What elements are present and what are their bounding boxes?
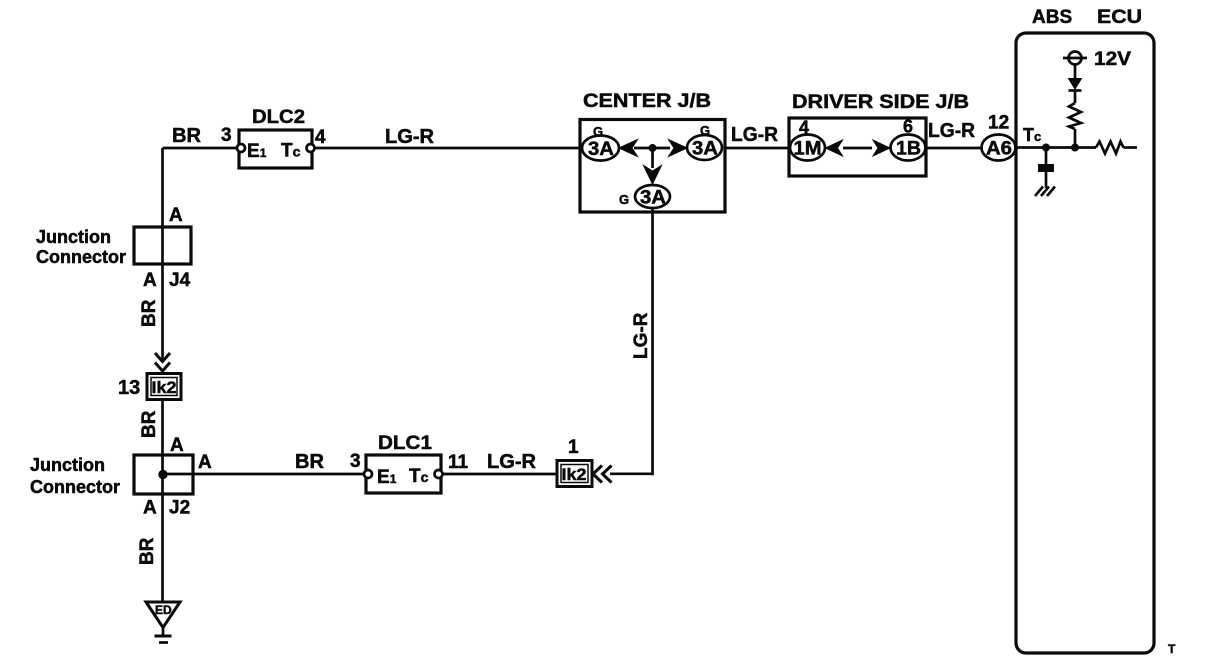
svg-text:J2: J2 — [169, 498, 190, 519]
svg-text:ABS: ABS — [1032, 7, 1072, 28]
svg-text:Ik2: Ik2 — [562, 465, 587, 484]
connector 1M — [790, 135, 825, 161]
diode D1 (down) — [1069, 79, 1082, 90]
svg-text:Connector: Connector — [30, 477, 120, 497]
svg-text:BR: BR — [137, 537, 158, 565]
svg-text:ED: ED — [155, 603, 172, 617]
svg-text:11: 11 — [448, 452, 469, 473]
connector Ik2 (pin 13) — [147, 374, 181, 400]
wire capacitor to ground — [1045, 172, 1048, 189]
svg-text:LG-R: LG-R — [385, 126, 435, 148]
node center junction dot — [649, 145, 656, 152]
svg-text:3: 3 — [350, 451, 361, 472]
svg-text:Ik2: Ik2 — [152, 378, 177, 397]
connector 1B — [891, 135, 926, 161]
wire ECU internal horizontal — [1016, 146, 1096, 149]
svg-text:4: 4 — [315, 127, 326, 148]
svg-text:LG-R: LG-R — [631, 312, 652, 359]
capacitor C1 — [1039, 165, 1054, 172]
ground (chassis) — [1035, 187, 1055, 197]
svg-text:LG-R: LG-R — [928, 120, 976, 142]
connector DLC2 — [239, 130, 312, 168]
arrow left (to 1M) — [826, 140, 843, 156]
junction connector J4 — [134, 227, 191, 264]
connector 3A left — [582, 136, 619, 161]
terminal circle DLC2 pin3 — [237, 144, 245, 152]
wire LG-R vertical up to CENTER J/B — [651, 208, 654, 475]
svg-text:Junction: Junction — [30, 455, 105, 475]
terminal circle DLC1 pin11 — [435, 470, 443, 478]
svg-text:J4: J4 — [169, 270, 191, 291]
svg-text:DLC2: DLC2 — [252, 107, 305, 128]
svg-text:Tc: Tc — [409, 466, 429, 487]
wire LG-R DLC1 to Ik2 — [443, 473, 558, 476]
wire vertical BR left run — [161, 148, 164, 360]
svg-text:A: A — [198, 452, 212, 473]
connector Ik2 (pin 1) — [557, 461, 592, 487]
wire between 1M and 1B — [843, 147, 872, 150]
svg-text:LG-R: LG-R — [731, 124, 779, 146]
arrow left (to 3A) — [619, 140, 638, 157]
wire LG-R CENTER to DRIVER SIDE — [725, 147, 790, 150]
svg-text:DLC1: DLC1 — [378, 433, 432, 454]
svg-text:LG-R: LG-R — [487, 451, 537, 473]
arrow down (to bottom 3A) — [644, 166, 662, 185]
svg-text:A: A — [143, 498, 157, 519]
node Tc junction dot 1 — [1043, 144, 1050, 151]
svg-text:12V: 12V — [1094, 49, 1131, 70]
arrow right (to 3A) — [669, 140, 688, 157]
svg-text:G: G — [593, 124, 603, 139]
wire node to capacitor — [1045, 148, 1048, 165]
arrow chevrons left after Ik2 — [593, 466, 612, 483]
wire LG-R DRIVER SIDE to A6 — [926, 147, 981, 150]
ground ED triangle — [146, 602, 180, 628]
resistor R2 (horizontal zigzag) — [1096, 142, 1124, 154]
wire main top BR segment — [163, 147, 241, 150]
svg-text:Connector: Connector — [36, 247, 126, 267]
svg-text:BR: BR — [139, 410, 160, 438]
wire LG-R DLC2 to CENTER J/B — [315, 147, 584, 150]
svg-text:ECU: ECU — [1097, 7, 1142, 28]
connector A6 — [982, 135, 1016, 161]
svg-text:Tc: Tc — [281, 141, 301, 162]
svg-text:BR: BR — [172, 125, 202, 147]
svg-text:1: 1 — [568, 437, 579, 458]
connector 3A right — [687, 135, 722, 160]
12V supply symbol — [1069, 52, 1082, 65]
svg-text:A6: A6 — [986, 139, 1012, 160]
wire BR J2 to DLC1 — [163, 473, 368, 476]
svg-text:DRIVER SIDE J/B: DRIVER SIDE J/B — [792, 92, 969, 113]
ABS ECU box U1 — [1016, 33, 1154, 653]
svg-text:G: G — [700, 123, 710, 138]
svg-text:1B: 1B — [896, 139, 921, 160]
wire down from center dot — [651, 148, 654, 168]
node junction dot 2 — [1072, 144, 1079, 151]
junction block CENTER J/B — [580, 120, 725, 213]
svg-text:3A: 3A — [588, 139, 614, 160]
resistor R1 (vertical zigzag) — [1069, 103, 1081, 129]
wire diode to resistor — [1074, 91, 1077, 104]
wire Ik2 to corner — [610, 472, 653, 475]
svg-text:1M: 1M — [794, 139, 822, 160]
node J2 junction dot — [159, 470, 167, 478]
connector DLC1 — [366, 455, 441, 493]
wire Ik2 to J2 — [161, 400, 164, 603]
wire between 3A ovals — [634, 147, 670, 150]
terminal circle DLC2 pin4 — [307, 144, 315, 152]
junction connector J2 — [134, 455, 193, 494]
wire resistor to node — [1074, 129, 1077, 151]
svg-text:T: T — [1168, 642, 1176, 656]
wire after R2 — [1124, 146, 1138, 149]
arrow right (to 1B) — [873, 140, 890, 156]
svg-text:12: 12 — [988, 113, 1009, 134]
svg-text:A: A — [169, 205, 183, 226]
connector 3A bottom — [635, 185, 670, 208]
svg-text:13: 13 — [118, 377, 140, 399]
svg-text:Junction: Junction — [36, 227, 111, 247]
junction block DRIVER SIDE J/B — [789, 118, 926, 176]
svg-text:CENTER J/B: CENTER J/B — [583, 91, 711, 112]
wire from 12V to diode — [1074, 65, 1077, 80]
svg-text:3A: 3A — [692, 139, 718, 160]
svg-text:G: G — [619, 192, 629, 207]
svg-text:BR: BR — [139, 299, 160, 327]
svg-text:BR: BR — [295, 451, 325, 473]
arrow chevrons down to Ik2 — [155, 353, 170, 371]
svg-text:3: 3 — [221, 125, 232, 146]
svg-text:3A: 3A — [640, 188, 666, 209]
svg-text:A: A — [143, 270, 157, 291]
svg-text:A: A — [170, 435, 184, 456]
terminal circle DLC1 pin3 — [364, 470, 372, 478]
